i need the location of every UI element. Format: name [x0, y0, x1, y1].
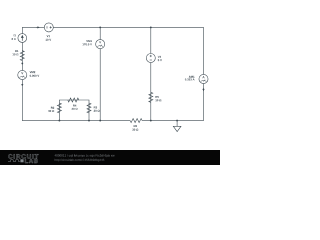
wire — [53, 27, 203, 74]
wire — [142, 84, 203, 121]
label VM2 — [30, 71, 40, 77]
wire — [22, 80, 130, 121]
ground — [173, 121, 181, 132]
label R3 — [94, 106, 100, 111]
label I1 — [12, 34, 16, 40]
label R5 — [155, 96, 161, 101]
node top wire / V2 branch — [150, 26, 152, 28]
wire — [150, 63, 152, 121]
label VM1 — [83, 40, 92, 45]
label R2 — [48, 107, 54, 112]
wire — [150, 27, 152, 53]
wire — [22, 27, 44, 33]
wire — [59, 100, 89, 121]
label R4 — [72, 105, 78, 110]
footer bar — [0, 150, 220, 165]
label AM1 — [185, 76, 195, 81]
current arrow below R1 — [22, 62, 24, 65]
resistor R4 — [68, 98, 79, 102]
current arrow below AM1 — [203, 88, 205, 91]
voltmeter VM1 — [96, 40, 105, 49]
resistor R3 — [87, 103, 91, 113]
resistor R1 — [20, 51, 24, 61]
node bottom wire / VM1 branch — [99, 120, 101, 122]
current arrow below VM2 — [22, 83, 24, 86]
footer text line 2 — [55, 159, 105, 162]
node bottom wire / R5 branch — [150, 120, 152, 122]
label R6 — [132, 125, 138, 131]
wire — [99, 49, 101, 121]
label V1 — [46, 35, 52, 41]
resistor R6 — [130, 119, 142, 123]
resistor R5 — [149, 92, 153, 102]
current arrow on top wire — [36, 27, 39, 29]
voltmeter VM2 — [18, 70, 27, 79]
current source I1 — [18, 34, 27, 43]
wire — [21, 42, 23, 70]
footer text line 1 — [55, 154, 115, 157]
label V2 — [158, 56, 162, 61]
node top wire / VM1 branch — [99, 26, 101, 28]
resistor R2 — [57, 103, 61, 113]
node bottom wire / R3 — [88, 120, 90, 122]
voltage source V1 — [44, 23, 53, 32]
CircuitLab logo — [8, 154, 38, 163]
node bottom wire / ground — [176, 120, 178, 122]
node bottom wire / R2 — [58, 120, 60, 122]
label R1 — [13, 50, 19, 55]
voltage source V2 — [146, 54, 155, 63]
wire — [99, 27, 101, 39]
ammeter AM1 — [199, 74, 208, 83]
